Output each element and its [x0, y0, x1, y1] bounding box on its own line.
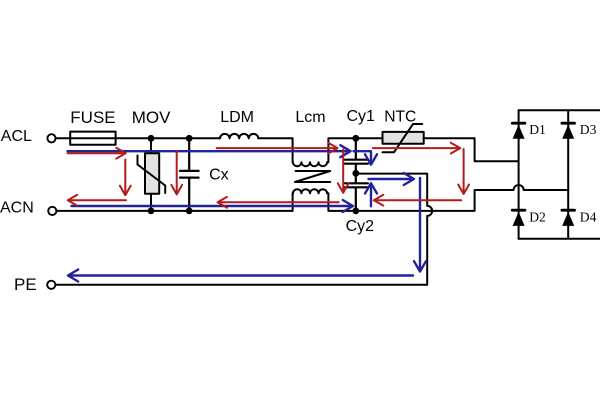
flow blue ACL line: [68, 145, 351, 157]
capacitor Cy2: [345, 173, 368, 211]
svg-text:D2: D2: [529, 209, 546, 224]
svg-text:PE: PE: [14, 275, 37, 294]
wire node B to bridge lower input: [356, 185, 568, 211]
capacitor Cx: [180, 138, 199, 211]
flow blue ACN rightward: [72, 200, 354, 212]
inductor LDM: [220, 134, 258, 138]
flow red ACL to MOV: [68, 148, 126, 159]
wire Lcm top right to node A: [328, 138, 355, 162]
node PE terminal: [47, 281, 55, 289]
varistor MOV vertical stubs: [150, 138, 152, 211]
flow red Cx down: [171, 151, 182, 195]
core of Lcm: [295, 171, 330, 182]
wire LDM to Lcm: [258, 138, 292, 162]
svg-text:D4: D4: [580, 209, 597, 224]
capacitor Cy1: [345, 138, 368, 173]
varistor MOV strike line: [138, 156, 166, 194]
inductor Lcm bottom winding: [293, 189, 327, 193]
wire bridge top rail: [519, 109, 600, 111]
svg-text:Cy1: Cy1: [347, 108, 376, 125]
flow red NTC rightward: [373, 143, 461, 154]
svg-text:FUSE: FUSE: [70, 108, 115, 127]
node Cx top: [186, 135, 193, 142]
wire Lcm bottom left stub: [292, 193, 294, 211]
wire ACN to Lcm: [57, 210, 293, 212]
svg-text:D3: D3: [580, 122, 597, 137]
svg-text:NTC: NTC: [384, 109, 416, 126]
svg-text:ACL: ACL: [1, 128, 32, 145]
svg-text:ACN: ACN: [0, 200, 34, 217]
node B (Cy2 bottom): [352, 208, 359, 215]
diode D1: [512, 123, 525, 139]
fuse FUSE: [70, 132, 115, 145]
varistor MOV body: [145, 153, 159, 194]
flow red LDM rightward: [217, 143, 338, 154]
wire bridge bottom rail: [519, 238, 600, 240]
flow red ACN leftward (middle): [218, 197, 339, 208]
node MOV top: [148, 135, 155, 142]
wire bridge left branch: [518, 110, 520, 239]
diode D3: [562, 123, 575, 139]
svg-text:Lcm: Lcm: [295, 109, 325, 126]
diode D4: [562, 210, 575, 226]
flow blue mid to earth: [369, 173, 415, 185]
flow red ACN leftward (left): [68, 195, 126, 206]
node ACL terminal: [47, 134, 55, 142]
flow blue earth down: [414, 178, 426, 272]
svg-text:D1: D1: [529, 122, 546, 137]
wire fuse through to LDM: [70, 137, 220, 139]
flow blue Cy2 up: [365, 183, 377, 206]
wire mid node to earth drop (with hump over ACN wire): [55, 174, 432, 285]
inductor Lcm top winding: [293, 162, 327, 166]
flow red Lcm right down: [338, 150, 349, 193]
diode D2: [512, 210, 525, 226]
node mid (Cy1/Cy2 junction): [352, 170, 359, 177]
svg-text:Cx: Cx: [209, 166, 229, 183]
svg-text:MOV: MOV: [132, 108, 171, 127]
wire NTC to bridge upper input: [424, 138, 519, 161]
svg-text:Cy2: Cy2: [346, 218, 375, 235]
wire Lcm bottom right to node B: [328, 193, 355, 211]
flow red bridge down: [458, 149, 469, 194]
flow blue PE leftward: [68, 270, 413, 282]
svg-text:LDM: LDM: [220, 109, 254, 126]
node Cx bottom: [186, 208, 193, 215]
node ACN terminal: [48, 207, 56, 215]
flow red MOV down: [120, 160, 131, 196]
node A (Cy1 top): [352, 135, 359, 142]
flow red return leftward: [374, 195, 462, 206]
thermistor NTC strike line: [383, 124, 423, 152]
wire node A to NTC: [356, 137, 383, 139]
node MOV bottom: [148, 208, 155, 215]
flow blue node to Cy1 down: [354, 151, 378, 164]
wire bridge right branch: [567, 110, 569, 239]
thermistor NTC: [383, 132, 424, 144]
wire ACL terminal to fuse: [56, 137, 70, 139]
